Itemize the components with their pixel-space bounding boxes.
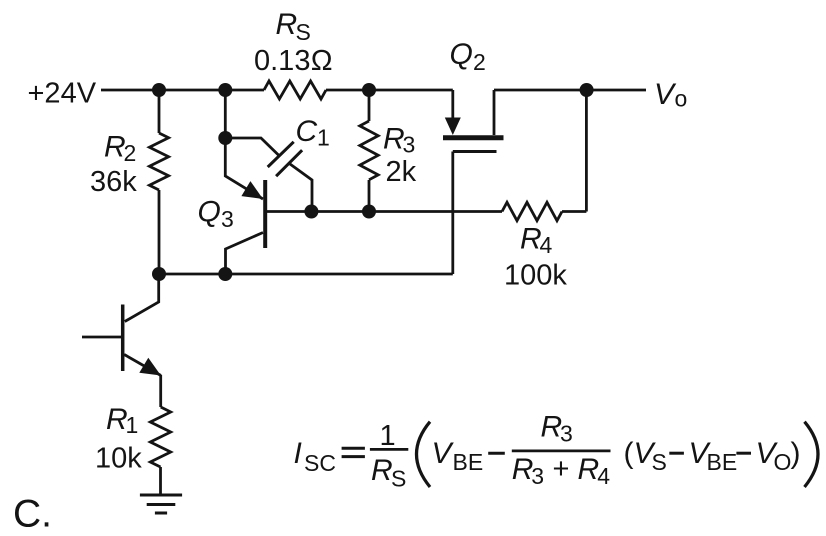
wire: Q3 emitter branch <box>225 138 263 199</box>
svg-text:10k: 10k <box>95 442 142 474</box>
wire: rail RS to Q2 drain <box>326 89 453 92</box>
svg-text:S: S <box>296 19 311 45</box>
svg-text:3: 3 <box>560 421 573 447</box>
label Q3 <box>198 196 234 233</box>
svg-text:3: 3 <box>403 132 416 158</box>
formula minus 3 <box>736 452 751 455</box>
svg-text:BE: BE <box>453 449 484 475</box>
formula minus 2 <box>669 452 684 455</box>
svg-text:S: S <box>391 466 406 492</box>
svg-text:1: 1 <box>126 412 139 438</box>
node: rail-Q3 branch <box>218 83 232 97</box>
capacitor C1 <box>225 138 312 212</box>
node: rail-R3 <box>362 83 376 97</box>
wire: lower bus <box>159 273 453 276</box>
svg-text:SC: SC <box>304 450 336 476</box>
svg-text:2k: 2k <box>386 156 417 188</box>
svg-text:3: 3 <box>531 463 544 489</box>
svg-text:O: O <box>774 449 792 475</box>
formula big left paren <box>417 422 431 487</box>
label Vo <box>654 78 687 112</box>
label R1 <box>106 403 138 438</box>
label R4 <box>520 223 553 259</box>
svg-text:1: 1 <box>317 125 330 151</box>
svg-text:Q: Q <box>198 196 221 229</box>
formula equals sign <box>342 448 365 456</box>
formula minus 1 <box>488 452 505 455</box>
svg-text:2: 2 <box>473 49 486 75</box>
svg-text:0.13Ω: 0.13Ω <box>254 45 333 77</box>
svg-text:S: S <box>652 449 667 475</box>
svg-text:+24V: +24V <box>28 78 97 110</box>
formula ISC <box>294 411 801 492</box>
transistor Q3 <box>226 180 266 274</box>
svg-text:I: I <box>294 437 302 470</box>
label R3 <box>383 122 415 157</box>
node: R3-base junction <box>362 205 376 219</box>
node: lower bus Q3 collector <box>218 267 232 281</box>
svg-text:R: R <box>106 403 128 436</box>
wire: Q2 source to output <box>494 89 646 92</box>
resistor R4 <box>502 90 586 221</box>
svg-text:+: + <box>553 453 570 485</box>
label R2 <box>104 131 136 167</box>
resistor RS <box>264 81 326 99</box>
svg-text:3: 3 <box>221 206 234 232</box>
node: output <box>580 83 594 97</box>
svg-text:4: 4 <box>597 463 610 489</box>
wire: rail to Q3 emitter node <box>224 90 227 138</box>
svg-text:o: o <box>675 86 688 112</box>
node: rail-R2 <box>152 83 166 97</box>
svg-text:36k: 36k <box>90 166 137 198</box>
svg-text:Q: Q <box>450 38 473 71</box>
svg-text:R: R <box>276 8 298 41</box>
wire: +24V supply rail <box>101 89 264 92</box>
svg-text:100k: 100k <box>504 259 567 291</box>
wire: Q2 gate feedback line <box>451 152 454 275</box>
formula fraction bar 1/RS <box>370 448 408 451</box>
node: emitter/C1 junction <box>218 131 232 145</box>
label C1 <box>296 115 330 151</box>
svg-text:R: R <box>541 411 563 444</box>
formula big right paren <box>805 422 819 487</box>
svg-text:4: 4 <box>540 232 553 258</box>
svg-text:R: R <box>512 453 534 486</box>
resistor R2 <box>149 90 168 274</box>
svg-text:BE: BE <box>707 449 738 475</box>
svg-text:1: 1 <box>380 420 396 452</box>
svg-text:C: C <box>296 115 318 148</box>
svg-text:R: R <box>371 454 393 487</box>
resistor R1 <box>150 407 170 494</box>
node: C1-base junction <box>304 205 318 219</box>
svg-text:C.: C. <box>13 493 52 536</box>
svg-text:R: R <box>578 453 600 486</box>
wire: base bus Q3 to R4 <box>266 210 502 213</box>
svg-text:2: 2 <box>124 140 137 166</box>
svg-text:R: R <box>520 223 542 256</box>
svg-text:(: ( <box>624 437 634 470</box>
transistor Q2 <box>443 90 504 152</box>
svg-text:V: V <box>432 437 455 470</box>
svg-text:): ) <box>791 437 801 470</box>
ground <box>140 495 182 513</box>
label RS <box>276 8 311 45</box>
formula fraction bar R3/(R3+R4) <box>512 449 611 452</box>
svg-text:R: R <box>383 122 405 155</box>
node: lower bus R2 <box>152 267 166 281</box>
label Q2 <box>450 38 486 75</box>
transistor Q1 <box>82 274 161 407</box>
resistor R3 <box>360 90 378 212</box>
svg-text:R: R <box>104 131 126 164</box>
